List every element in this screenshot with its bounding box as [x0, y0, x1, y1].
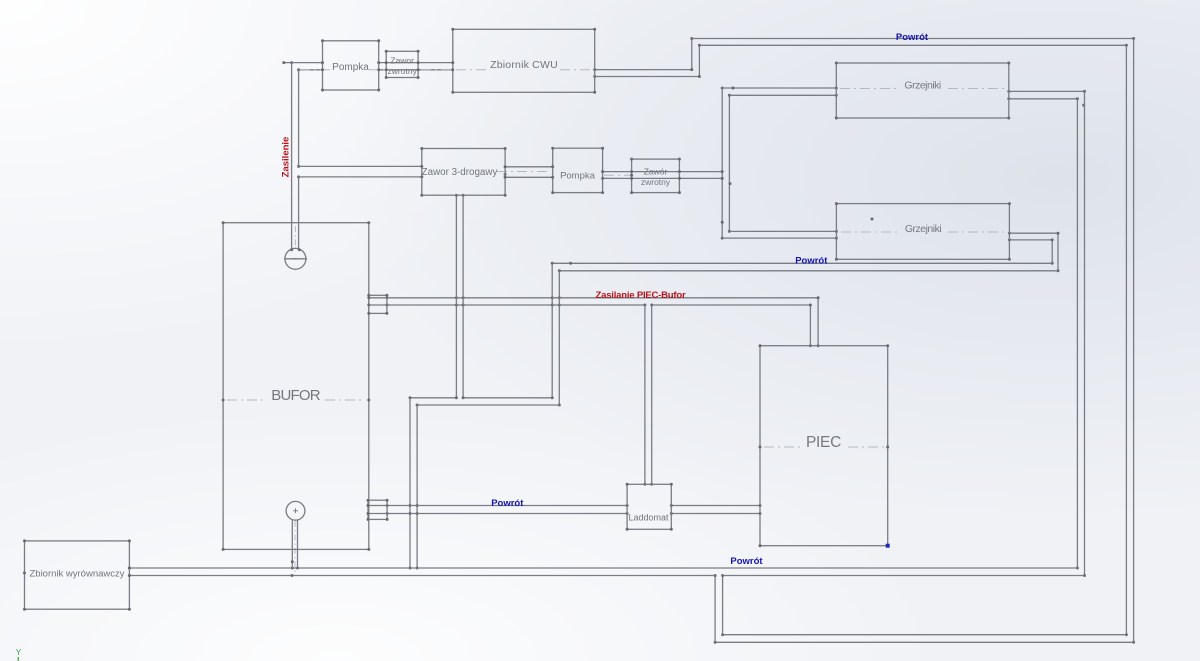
wire: mid Powrot horizontal pair: [551, 262, 1058, 273]
BUFOR lower-right connector: [367, 499, 389, 521]
wire: lower connect drop pair: [409, 398, 419, 570]
furnace PIEC: [759, 344, 890, 547]
wire: top Powrot horizontal pair: [692, 37, 1135, 47]
svg-text:Y: Y: [16, 648, 22, 657]
wire: Laddomat branch drop pair: [643, 305, 653, 486]
radiator Grzejniki 1: [835, 62, 1011, 120]
label Zasilanie PIEC-Bufor: [596, 290, 686, 301]
BUFOR upper-right connector: [367, 294, 388, 315]
wire: BUFOR bottom valve drop pair: [291, 520, 298, 568]
label Powrot (bottom): [730, 556, 763, 567]
centerline: valve row: [497, 172, 630, 176]
svg-text:Zawór: Zawór: [644, 167, 668, 177]
wire: Zasilanie PIEC-Bufor lower line (tee gap at Laddomat branch): [385, 304, 810, 307]
BUFOR top connection valve (circle): [284, 248, 307, 269]
pump Pompka (top): [321, 39, 380, 91]
centerline: bottom valve axis: [294, 521, 296, 574]
wire: radiator supply column pair: [721, 87, 731, 240]
label Powrot (bufor-laddomat): [491, 498, 524, 509]
label Powrot (top): [896, 32, 929, 43]
svg-text:Powrót: Powrót: [896, 32, 929, 43]
wire: Zbiornik CWU outlet pair to top return riser: [593, 37, 701, 78]
buffer tank BUFOR: [222, 221, 371, 551]
svg-text:Pompka: Pompka: [332, 62, 369, 73]
label Powrot (middle): [795, 255, 828, 266]
check valve Zawor zwrotny (top): [385, 50, 420, 79]
wire: Zasilenie riser left line: [290, 61, 293, 249]
wire: bottom outer return pair: [714, 633, 1134, 644]
svg-text:Powrót: Powrót: [795, 255, 828, 266]
wire: Zasilenie riser right line (tee gap at 3-way valve branch): [297, 68, 300, 249]
svg-text:Zbiornik wyrównawczy: Zbiornik wyrównawczy: [29, 569, 124, 580]
wire: Grzejniki return risers to bottom run: [1076, 91, 1086, 577]
wire: feed to Grzejniki 1 left: [722, 87, 838, 97]
wire: riser to Pompka pair: [292, 63, 323, 70]
radiator Grzejniki 2: [835, 202, 1011, 261]
wire: lower connect run lower line: [416, 404, 560, 407]
svg-text:Zasilanie PIEC-Bufor: Zasilanie PIEC-Bufor: [596, 290, 686, 301]
wire: mid Powrot drop pair: [551, 263, 561, 406]
expansion tank Zbiornik wyrownawczy: [23, 539, 131, 610]
svg-text:Zawor: Zawor: [390, 56, 414, 66]
wire: feed to Grzejniki 2 left: [722, 230, 838, 240]
wire: bottom return tee risers: [714, 574, 725, 642]
svg-text:Zasilenie: Zasilenie: [281, 137, 292, 178]
svg-text:BUFOR: BUFOR: [271, 387, 320, 404]
svg-text:Grzejniki: Grzejniki: [904, 79, 941, 91]
svg-text:Powrót: Powrót: [491, 498, 524, 509]
svg-text:zwrotny: zwrotny: [641, 177, 671, 187]
wire: bottom run upper line: [128, 567, 1078, 570]
wire: Zasilanie PIEC-Bufor upper line: [385, 296, 818, 299]
tank Zbiornik CWU: [451, 28, 596, 94]
svg-text:Pompka: Pompka: [560, 171, 596, 182]
wire: bottom run lower line (tee gap): [128, 574, 1085, 577]
wire: supply run valve to Pompka: [504, 167, 553, 178]
svg-text:Zbiornik CWU: Zbiornik CWU: [490, 59, 558, 71]
check valve Zawor zwrotny (middle): [630, 158, 681, 195]
wire: riser branch to 3-way valve: [299, 166, 422, 177]
wire: Laddomat to PIEC pair: [670, 504, 762, 515]
svg-text:zwrotny: zwrotny: [388, 66, 418, 76]
wire: lower connect run upper line (tee gap): [409, 396, 553, 399]
wire: right outer return riser pair: [1125, 39, 1135, 644]
origin triad Y axis: [16, 648, 22, 661]
Laddomat unit: [626, 483, 673, 531]
wire: 3-way valve drop pair: [455, 194, 465, 398]
svg-text:Laddomat: Laddomat: [628, 513, 669, 523]
centerline: CWU row: [300, 69, 592, 71]
wire: Zasilanie drop into PIEC: [809, 296, 820, 347]
valve Zawor 3-drogowy: [420, 147, 506, 197]
svg-text:Grzejniki: Grzejniki: [905, 223, 942, 235]
label Zasilenie (vertical): [281, 137, 292, 178]
wire: stub left of riser top: [282, 61, 291, 64]
wire: Grzejniki 2 right outlet pair: [1008, 232, 1060, 273]
wire: supply run Pompka to column: [603, 170, 732, 185]
centerline: top valve axis: [294, 226, 296, 247]
pump Pompka (middle): [551, 147, 604, 194]
svg-text:PIEC: PIEC: [806, 434, 841, 451]
wire: Pompka to Zbiornik CWU pair (through check valve): [379, 63, 453, 70]
PIEC selected vertex (blue dot): [886, 544, 890, 548]
BUFOR bottom valve (circle): [286, 501, 305, 520]
svg-text:Zawor 3-drogawy: Zawor 3-drogawy: [422, 167, 498, 178]
wire: BUFOR return to Laddomat pair: [386, 504, 629, 515]
wire: Grzejniki 1 right outlet pair: [1007, 90, 1086, 107]
svg-text:Powrót: Powrót: [730, 556, 763, 567]
